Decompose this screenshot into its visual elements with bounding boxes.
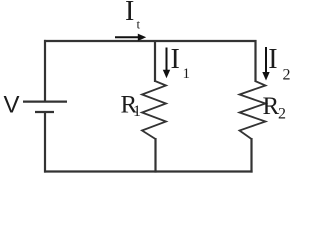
svg-text:I: I [268,44,277,75]
current arrow I1 [163,48,170,79]
current arrow I2 [262,47,269,81]
wire: bottom wire [44,170,253,172]
svg-text:I: I [125,0,134,27]
wire: R1 bottom lead (resistor down to bottom wire) [154,138,156,173]
resistor R1 (zigzag) [142,81,166,139]
svg-text:V: V [4,92,20,119]
wire: left wire lower segment (battery negative plate down to bottom-left corner) [44,112,46,173]
label It [125,0,141,32]
svg-text:2: 2 [278,105,286,122]
svg-text:R: R [263,93,280,120]
wire: R1 top lead (junction on top wire down to resistor) [154,40,156,82]
svg-text:1: 1 [133,103,141,120]
svg-text:2: 2 [283,67,291,84]
resistor R2 (zigzag) [240,81,266,139]
wire: left wire upper segment (top-left corner down to battery positive plate) [44,40,46,102]
svg-text:t: t [137,17,141,32]
svg-text:1: 1 [183,66,191,82]
wire: R2 bottom lead (resistor down to bottom wire) [250,138,252,173]
wire: R2 top lead (top-right corner down to resistor) [254,40,256,82]
label R2 [263,93,287,122]
label I2 [268,44,290,84]
label R1 [121,91,142,119]
current arrow It [115,34,146,41]
label I1 [171,44,191,82]
svg-text:I: I [171,44,180,75]
battery V (voltage source plates) [23,102,67,112]
wire: top wire from top-left corner to top-right corner [44,40,257,42]
